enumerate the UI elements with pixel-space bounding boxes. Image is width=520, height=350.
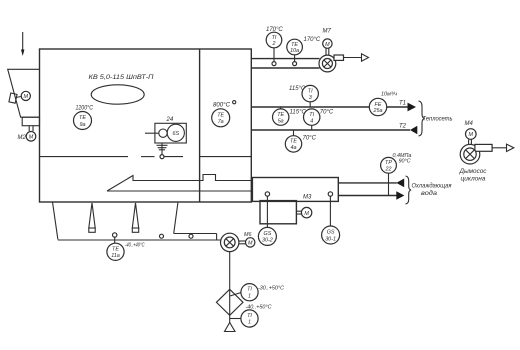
pipe T2 xyxy=(251,129,410,131)
motor M7 xyxy=(323,29,333,56)
svg-text:М: М xyxy=(24,94,29,100)
svg-text:циклона: циклона xyxy=(461,177,487,183)
node taps on flue duct xyxy=(272,62,297,66)
svg-text:ТЕ: ТЕ xyxy=(291,42,298,48)
instrument TE 5a xyxy=(273,107,307,125)
furnace internal line (dashed) xyxy=(40,156,251,158)
svg-text:7а: 7а xyxy=(218,119,224,125)
boiler divider wall xyxy=(199,49,201,202)
svg-text:М3: М3 xyxy=(303,194,312,200)
motor M feeder xyxy=(9,91,30,103)
svg-text:М7: М7 xyxy=(323,29,332,35)
svg-text:1: 1 xyxy=(248,320,251,326)
svg-text:170°С: 170°С xyxy=(304,37,321,43)
svg-text:5а: 5а xyxy=(278,118,284,124)
svg-text:М2: М2 xyxy=(18,135,27,141)
exhauster outlet arrow xyxy=(492,144,514,151)
svg-text:Дымосос: Дымосос xyxy=(458,169,486,175)
svg-text:-40..+40°С: -40..+40°С xyxy=(125,243,145,249)
brace Teploset xyxy=(419,101,453,136)
cooling water pipe lower xyxy=(338,195,397,197)
svg-text:4: 4 xyxy=(310,118,313,124)
svg-text:30-1: 30-1 xyxy=(325,236,336,242)
svg-text:М6: М6 xyxy=(244,232,252,238)
svg-text:ТЕ: ТЕ xyxy=(79,115,86,121)
svg-text:1: 1 xyxy=(248,293,251,299)
svg-text:ТЕ: ТЕ xyxy=(112,246,119,252)
fan M6 (blower) xyxy=(221,233,239,251)
burner drop line with ground marks xyxy=(157,143,168,155)
svg-text:11а: 11а xyxy=(111,253,120,259)
brace cooling water xyxy=(406,176,453,204)
air intake triangle xyxy=(225,323,236,332)
svg-text:70°С: 70°С xyxy=(303,136,317,142)
svg-text:FE: FE xyxy=(375,102,382,108)
instrument TI 1 upper xyxy=(230,284,284,301)
poker 1 xyxy=(89,203,95,232)
svg-text:ТР: ТР xyxy=(385,160,392,166)
svg-text:ТI: ТI xyxy=(308,88,313,94)
svg-text:1200°С: 1200°С xyxy=(76,106,94,112)
instrument GS 30-1 xyxy=(322,226,340,244)
stack outlet arrow xyxy=(344,54,369,61)
svg-text:800°С: 800°С xyxy=(213,103,231,109)
motor M6 xyxy=(239,232,255,247)
svg-text:ТЕ: ТЕ xyxy=(290,139,297,145)
svg-text:М: М xyxy=(29,135,34,141)
svg-text:70°С: 70°С xyxy=(320,110,334,116)
svg-text:30-2: 30-2 xyxy=(262,238,273,244)
svg-text:10м³/ч: 10м³/ч xyxy=(381,92,397,98)
instrument TI 1 lower xyxy=(230,305,272,328)
air duct down from fan xyxy=(229,252,231,290)
motor M2 xyxy=(18,132,36,142)
fuel feeder hopper xyxy=(8,69,40,131)
cooling outlet arrow xyxy=(396,191,404,200)
svg-text:25а: 25а xyxy=(373,108,383,114)
burner unit 24 xyxy=(145,117,186,143)
cooling inlet arrow xyxy=(396,179,404,188)
air heater diamond xyxy=(216,289,243,322)
svg-text:ТI: ТI xyxy=(272,35,277,41)
svg-text:10а: 10а xyxy=(290,48,299,54)
svg-text:Охлаждающая: Охлаждающая xyxy=(412,184,453,190)
svg-text:ТЕ: ТЕ xyxy=(277,112,284,118)
smoke exhauster fan M4 xyxy=(460,144,492,164)
fan M7 (smoke exhauster) xyxy=(319,55,344,72)
fuel inlet arrow xyxy=(21,32,24,56)
slag conveyor M3 box xyxy=(252,178,338,202)
instrument PR 22 xyxy=(381,153,412,196)
svg-text:ТI: ТI xyxy=(247,287,252,293)
svg-text:ТЕ: ТЕ xyxy=(217,112,224,118)
instrument TE 11a xyxy=(107,243,145,261)
svg-text:М: М xyxy=(304,211,309,217)
svg-text:М: М xyxy=(248,241,253,247)
motor M4 xyxy=(465,121,477,145)
svg-text:6S: 6S xyxy=(173,131,180,137)
svg-text:24: 24 xyxy=(166,117,174,123)
pipe T1 xyxy=(251,106,407,108)
svg-text:М: М xyxy=(325,42,330,48)
svg-text:ТI: ТI xyxy=(247,313,252,319)
svg-text:4а: 4а xyxy=(291,145,297,151)
ash hopper walls xyxy=(53,202,178,240)
poker 2 xyxy=(132,203,138,232)
motor M of M3 xyxy=(296,207,311,217)
svg-text:GS: GS xyxy=(327,230,335,236)
svg-text:9а: 9а xyxy=(80,122,86,128)
svg-text:Т2: Т2 xyxy=(399,124,407,130)
svg-text:КВ 5,0-115 ШпВТ-П: КВ 5,0-115 ШпВТ-П xyxy=(89,75,155,81)
arrow T1 xyxy=(399,101,416,112)
node taps on collection line xyxy=(113,233,194,243)
grate arrow xyxy=(107,175,251,192)
conveyor drive box xyxy=(260,201,296,224)
node taps for GS sensors xyxy=(265,192,332,228)
instrument TI 4 xyxy=(304,109,334,130)
instrument TE 7a xyxy=(212,101,236,127)
flue gas duct to fan M7 xyxy=(251,59,319,68)
boiler body КВ 5,0-115 xyxy=(40,49,252,202)
svg-text:3: 3 xyxy=(309,95,312,101)
ash collection line xyxy=(58,234,221,241)
arrow T2 xyxy=(399,124,417,135)
flow meter FE 25a xyxy=(369,92,397,116)
instrument TE 4a xyxy=(285,130,316,152)
svg-text:Т1: Т1 xyxy=(399,101,406,107)
svg-text:90°С: 90°С xyxy=(399,159,411,165)
svg-text:2: 2 xyxy=(272,41,276,47)
svg-text:Теплосеть: Теплосеть xyxy=(423,116,453,123)
instrument TE 10a xyxy=(287,37,321,62)
svg-text:ТI: ТI xyxy=(309,112,314,118)
svg-text:вода: вода xyxy=(421,191,438,197)
cooling water pipe upper xyxy=(338,182,397,184)
svg-text:GS: GS xyxy=(264,231,272,237)
svg-text:22: 22 xyxy=(385,167,392,173)
svg-text:-30..+50°С: -30..+50°С xyxy=(258,286,284,292)
instrument TI 2 xyxy=(266,27,283,62)
furnace ellipse xyxy=(91,85,144,104)
instrument TI 3 xyxy=(289,85,318,107)
instrument GS 30-2 xyxy=(258,227,276,245)
svg-text:М4: М4 xyxy=(465,121,474,127)
instrument TE 9a xyxy=(74,106,94,130)
node on furnace line xyxy=(160,155,164,159)
label smoke exhauster xyxy=(458,169,486,183)
svg-text:М: М xyxy=(469,132,474,138)
